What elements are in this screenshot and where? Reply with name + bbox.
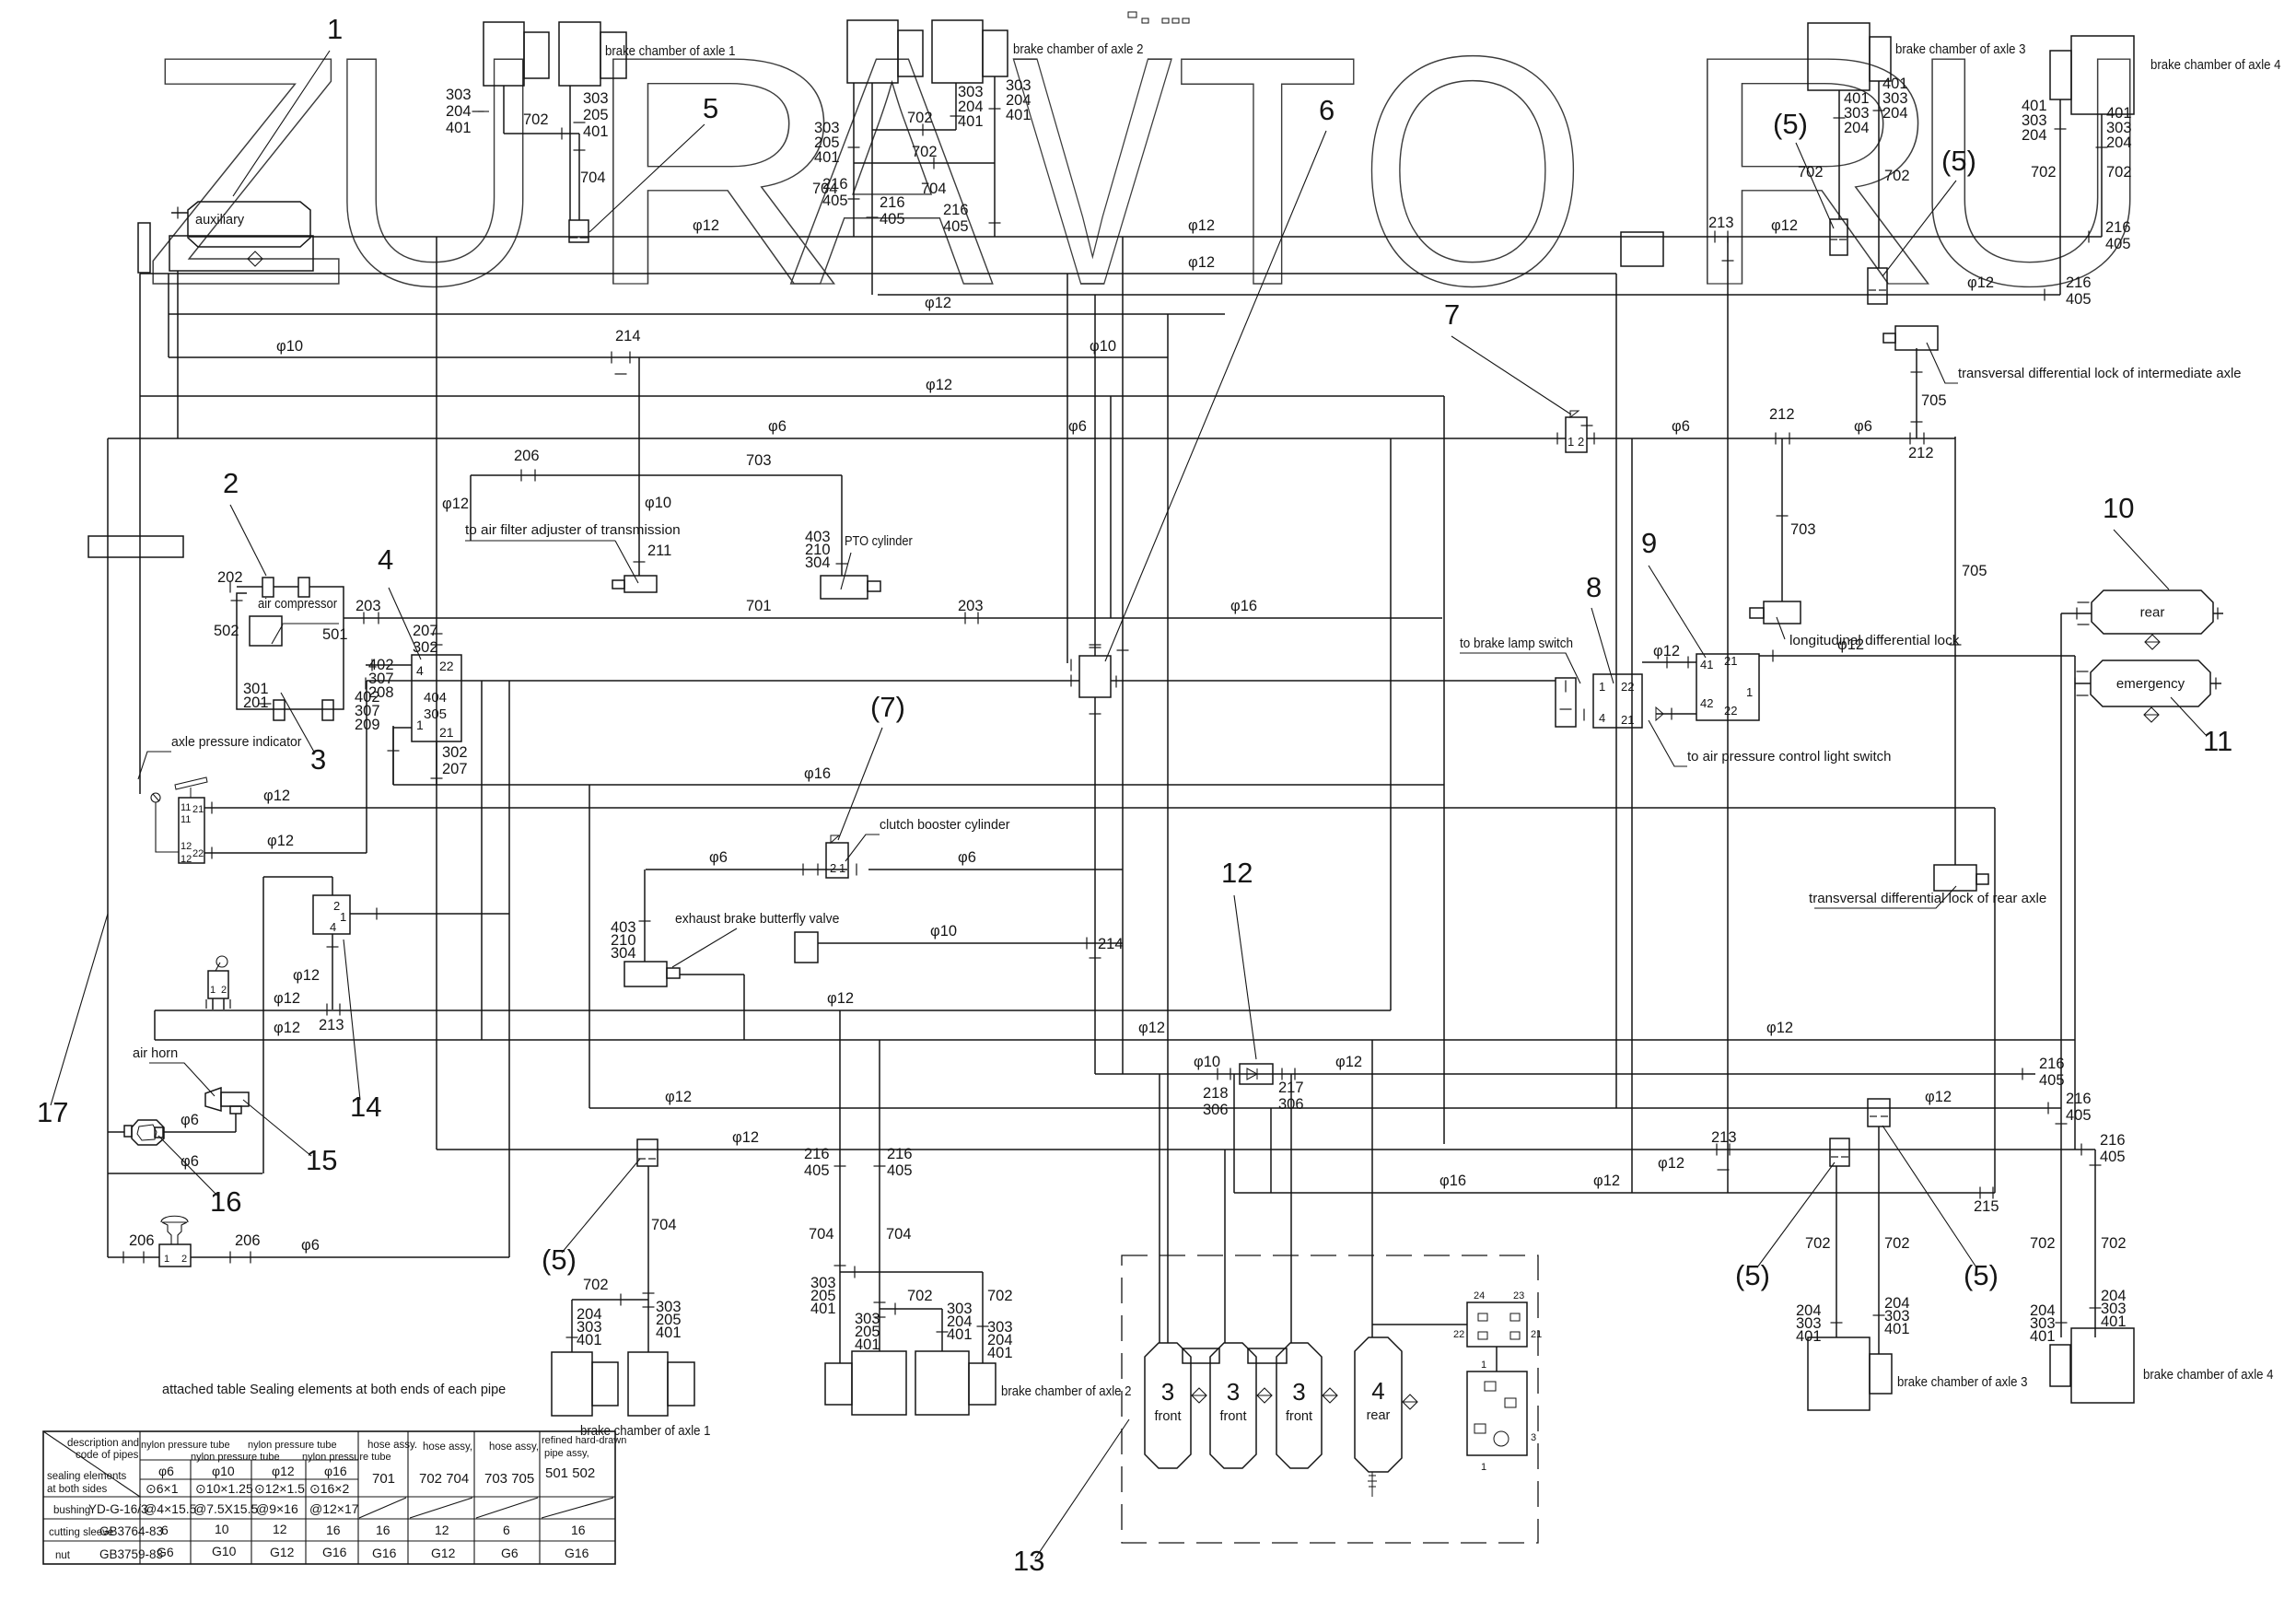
svg-text:4: 4 (416, 663, 424, 678)
svg-text:5: 5 (703, 92, 718, 124)
watermark dot square (1621, 232, 1663, 266)
diamond rear (2145, 635, 2160, 649)
leader 2 (230, 505, 266, 576)
diamond tD (1403, 1395, 1417, 1409)
valve 8 box (1593, 674, 1642, 728)
svg-text:1: 1 (1568, 435, 1574, 449)
svg-text:206: 206 (514, 448, 540, 464)
axle2 small box A (898, 30, 923, 76)
svg-text:refined hard-drawn: refined hard-drawn (542, 1435, 626, 1446)
svg-text:(5): (5) (1964, 1259, 1999, 1291)
svg-text:φ12: φ12 (293, 967, 320, 984)
svg-text:703: 703 (1790, 521, 1816, 538)
svg-text:201: 201 (243, 694, 269, 711)
svg-text:φ12: φ12 (1335, 1054, 1362, 1070)
svg-text:214: 214 (1098, 936, 1124, 952)
brake chamber axle4 bottom big (2071, 1328, 2134, 1403)
leader (7) (838, 728, 882, 840)
left cap rect (138, 223, 150, 273)
wire 702 link axle1 bottom (572, 1299, 648, 1301)
wire phi12 8 to 9 (1642, 661, 1696, 663)
table diagonals hose (359, 1498, 406, 1518)
svg-text:GB3764-83: GB3764-83 (99, 1524, 163, 1538)
tank risers (1159, 1074, 1160, 1343)
svg-text:11: 11 (181, 814, 191, 825)
svg-text:front: front (1219, 1409, 1246, 1424)
svg-text:to brake lamp switch: to brake lamp switch (1460, 636, 1573, 651)
wire 702 link axle1 (504, 133, 579, 134)
wire clutch phi6 y944 (646, 869, 847, 870)
svg-text:216: 216 (943, 202, 969, 218)
leader (5) bottom (562, 1159, 640, 1253)
wire vert x1568 (1443, 396, 1445, 1144)
svg-text:401: 401 (1006, 107, 1031, 123)
svg-text:405: 405 (943, 218, 969, 235)
svg-text:front: front (1154, 1409, 1181, 1424)
svg-text:11: 11 (181, 802, 191, 813)
leader 9 (1649, 566, 1706, 658)
svg-text:21: 21 (439, 725, 454, 740)
leader pto (841, 553, 851, 589)
axle4 bottom small (2050, 1345, 2070, 1386)
compressor ports (262, 578, 274, 597)
svg-text:@7.5X15.5: @7.5X15.5 (193, 1501, 258, 1516)
fitting box axle1 (569, 220, 589, 242)
wire bus y1248 (437, 1149, 2095, 1150)
wire bus y1129 (155, 1039, 2075, 1041)
svg-text:2: 2 (830, 861, 836, 875)
svg-text:405: 405 (804, 1162, 830, 1179)
svg-text:G6: G6 (501, 1546, 519, 1560)
svg-text:203: 203 (355, 598, 381, 614)
svg-text:702: 702 (2031, 164, 2057, 181)
brake chamber of axle 1 top boxA (484, 22, 524, 86)
svg-text:304: 304 (805, 554, 831, 571)
svg-text:702: 702 (1805, 1235, 1831, 1252)
svg-text:13: 13 (1013, 1545, 1044, 1577)
svg-text:φ12: φ12 (925, 295, 951, 311)
svg-text:transversal differential lock: transversal differential lock of interme… (1958, 367, 2242, 381)
wire vert x1876 (1727, 237, 1729, 1193)
svg-text:704: 704 (812, 181, 838, 197)
svg-text:1: 1 (164, 1254, 169, 1265)
leader 6 (1105, 131, 1326, 661)
svg-text:704: 704 (886, 1226, 912, 1243)
svg-text:212: 212 (1769, 406, 1795, 423)
svg-text:22: 22 (192, 848, 204, 859)
wire toggle stubs (212, 998, 214, 1010)
svg-text:21: 21 (1621, 713, 1634, 727)
svg-text:12: 12 (1221, 857, 1253, 889)
svg-text:φ12: φ12 (1138, 1020, 1165, 1036)
brake chamber axle3 bottom big (1808, 1337, 1870, 1410)
wire 703 line y516 (471, 474, 842, 476)
svg-text:702: 702 (907, 1288, 933, 1304)
svg-text:212: 212 (1908, 445, 1934, 461)
svg-text:G12: G12 (431, 1546, 456, 1560)
svg-text:nylon pressure tube: nylon pressure tube (191, 1452, 280, 1463)
wire clutch booster phi10 y1024 (818, 942, 1123, 944)
diamond emergency (2144, 707, 2159, 722)
api body (179, 798, 204, 863)
wire axle4 risers (2059, 99, 2061, 295)
svg-text:14: 14 (350, 1091, 381, 1123)
svg-text:702: 702 (583, 1277, 609, 1293)
svg-text:brake chamber of axle 2: brake chamber of axle 2 (1013, 42, 1144, 57)
wire 702 riser axle1 (571, 1300, 573, 1352)
svg-text:φ12: φ12 (274, 990, 300, 1007)
svg-text:6: 6 (503, 1523, 510, 1537)
leader 5 (589, 124, 705, 232)
svg-text:704: 704 (580, 169, 606, 186)
leader tdlr (1814, 886, 1956, 908)
wire axle1 legA (503, 86, 505, 134)
leader 7 (1451, 336, 1571, 414)
wire vert x427 (392, 726, 394, 785)
svg-text:401: 401 (1796, 1328, 1822, 1345)
svg-text:bushing: bushing (53, 1505, 90, 1516)
wire hand valve line y1365 (108, 1256, 159, 1258)
svg-text:16: 16 (376, 1523, 390, 1537)
svg-text:24: 24 (1474, 1290, 1485, 1301)
svg-text:302: 302 (413, 639, 438, 656)
wire exhaust stub y1058 (680, 974, 744, 975)
svg-text:401: 401 (2030, 1328, 2056, 1345)
svg-text:1: 1 (1746, 685, 1753, 699)
svg-text:exhaust brake butterfly valve: exhaust brake butterfly valve (675, 912, 839, 927)
wire bus y1097 (155, 1010, 1391, 1011)
svg-text:φ12: φ12 (1188, 217, 1215, 234)
svg-text:longitudinal differential lock: longitudinal differential lock (1789, 634, 1960, 648)
wire 701 line y671 (344, 617, 1442, 619)
brake chamber axle2 bottom bigB (915, 1351, 969, 1415)
svg-text:φ12: φ12 (732, 1129, 759, 1146)
svg-text:6: 6 (161, 1523, 169, 1537)
svg-text:702: 702 (1884, 168, 1910, 184)
svg-text:405: 405 (2066, 291, 2092, 308)
svg-text:405: 405 (2100, 1149, 2126, 1165)
svg-text:1: 1 (327, 13, 343, 45)
wire riser x1067 702 (982, 1272, 984, 1363)
svg-text:206: 206 (235, 1232, 261, 1249)
svg-text:9: 9 (1641, 527, 1657, 559)
wire rear ports (2061, 613, 2092, 614)
wire vert x1755 (1615, 274, 1617, 1108)
wire bus1 y257 (189, 236, 2102, 238)
wire port4 (366, 664, 412, 666)
table frame (43, 1431, 615, 1564)
svg-text:φ12: φ12 (693, 217, 719, 234)
table diagonal header (43, 1431, 140, 1497)
leader 14 (344, 940, 360, 1100)
leader air filter underline (465, 540, 615, 542)
svg-text:12: 12 (435, 1523, 449, 1537)
svg-text:⊙10×1.25: ⊙10×1.25 (195, 1481, 253, 1496)
svg-text:φ12: φ12 (827, 990, 854, 1007)
leader (5) b (1882, 181, 1956, 276)
svg-text:φ10: φ10 (930, 923, 957, 940)
tank 3 front A (1145, 1343, 1191, 1468)
svg-text:401: 401 (814, 149, 840, 166)
wire bus7 y476 phi6 (108, 438, 1566, 439)
wire 702 link axle2 bottom (880, 1308, 942, 1310)
wire axle3 riserA (1838, 90, 1840, 219)
svg-text:401: 401 (583, 123, 609, 140)
svg-text:G12: G12 (270, 1545, 295, 1559)
wire vert x1189 lower (1094, 697, 1096, 1074)
svg-text:hose assy,: hose assy, (489, 1441, 539, 1453)
wire vert x117 (107, 438, 109, 1257)
valve 9 box (1696, 654, 1759, 720)
svg-text:16: 16 (210, 1185, 241, 1218)
cluster link wires (1496, 1347, 1498, 1371)
svg-text:nut: nut (55, 1550, 71, 1561)
wire bus3 y320 (878, 294, 2060, 296)
svg-text:at both sides: at both sides (47, 1484, 107, 1495)
svg-text:φ16: φ16 (804, 765, 831, 782)
svg-text:brake chamber of axle 1: brake chamber of axle 1 (605, 44, 736, 59)
svg-text:⊙12×1.5: ⊙12×1.5 (254, 1481, 305, 1496)
svg-text:701: 701 (746, 598, 772, 614)
svg-text:42: 42 (1700, 696, 1713, 710)
svg-text:φ10: φ10 (276, 338, 303, 355)
svg-text:auxiliary: auxiliary (195, 213, 245, 228)
svg-text:401: 401 (947, 1326, 973, 1343)
wire valve14 top (332, 877, 333, 895)
svg-text:φ12: φ12 (267, 833, 294, 849)
svg-text:404: 404 (424, 690, 447, 706)
svg-text:701: 701 (372, 1471, 395, 1487)
svg-text:6: 6 (1319, 94, 1334, 126)
svg-text:GB3759-83: GB3759-83 (99, 1547, 163, 1561)
wire vert x193 (177, 271, 179, 438)
axle1 small box A (524, 32, 549, 78)
leader api (138, 752, 171, 779)
wire vert x640 (589, 785, 590, 1108)
svg-text:10: 10 (215, 1522, 229, 1536)
leader exhaust (672, 928, 737, 967)
svg-text:φ16: φ16 (1439, 1173, 1466, 1189)
wire vert x2166 (1994, 808, 1996, 1193)
svg-text:204: 204 (2106, 134, 2132, 151)
wire vert x1772 (1631, 438, 1633, 1193)
svg-text:φ16: φ16 (324, 1464, 347, 1478)
svg-text:YD-G-16/3: YD-G-16/3 (88, 1502, 148, 1516)
diamond aux drain (248, 251, 262, 266)
svg-text:401: 401 (656, 1325, 682, 1341)
watermark ZURAVTO RU outline letters (143, 0, 2157, 354)
svg-text:216: 216 (887, 1146, 913, 1162)
leader 11 (2171, 697, 2206, 735)
air horn port (230, 1106, 241, 1114)
leader 1 (233, 51, 330, 196)
svg-text:501: 501 (322, 626, 348, 643)
wire valve14 right (350, 913, 509, 915)
dashed storage box (1122, 1255, 1538, 1543)
PTO cylinder body (821, 576, 868, 599)
wire vert x2238 rear feed and axle4 riser (2060, 613, 2062, 1337)
leader clutch booster (845, 835, 880, 861)
svg-text:4: 4 (1371, 1377, 1384, 1405)
svg-text:G6: G6 (157, 1545, 174, 1559)
wire bus2 y297 (140, 273, 1616, 274)
svg-text:401: 401 (1884, 1321, 1910, 1337)
svg-text:φ12: φ12 (1766, 1020, 1793, 1036)
wire vert x2253 emergency feed (2074, 656, 2076, 1150)
brake valve 6 box (1079, 656, 1111, 697)
svg-text:22: 22 (1621, 680, 1634, 694)
svg-text:G16: G16 (372, 1546, 397, 1560)
svg-text:φ12: φ12 (1771, 217, 1798, 234)
auxiliary tank (188, 202, 310, 247)
svg-text:φ6: φ6 (709, 849, 728, 866)
wire bus y1166 (1095, 1073, 2035, 1075)
tank 3 front C (1276, 1343, 1322, 1468)
svg-text:air horn: air horn (133, 1046, 178, 1061)
svg-text:702: 702 (2106, 164, 2132, 181)
wire bus5 y388 phi10 (169, 356, 1168, 358)
svg-text:7: 7 (1444, 298, 1460, 331)
svg-text:218: 218 (1203, 1085, 1229, 1102)
svg-text:4: 4 (330, 920, 336, 934)
svg-text:1: 1 (1481, 1360, 1486, 1371)
wire port1 (393, 728, 412, 785)
svg-text:φ6: φ6 (181, 1112, 199, 1128)
svg-text:PTO cylinder: PTO cylinder (845, 534, 913, 549)
svg-text:703 705: 703 705 (484, 1471, 534, 1487)
leader 4 (389, 588, 421, 659)
svg-text:φ6: φ6 (158, 1464, 174, 1478)
svg-text:rear: rear (1367, 1408, 1391, 1423)
axle2 bottom smallA (825, 1363, 852, 1405)
wire vert x2275 axle4 riser2 (2094, 1150, 2096, 1337)
svg-text:3: 3 (1161, 1378, 1174, 1406)
wire vert x808 (743, 975, 745, 1040)
svg-text:502: 502 (214, 623, 239, 639)
wire vert x474 (436, 237, 437, 1150)
wire vert x1935 703 drop (1781, 438, 1783, 601)
axle1 small box B (600, 32, 626, 78)
svg-text:2: 2 (223, 467, 239, 499)
axle3 bottom small (1870, 1354, 1892, 1394)
svg-text:φ6: φ6 (301, 1237, 320, 1254)
fitting box right B (1830, 1138, 1849, 1166)
hand brake valve (159, 1244, 191, 1266)
svg-text:206: 206 (129, 1232, 155, 1249)
svg-text:attached table Sealing elem: attached table Sealing elements at both … (162, 1383, 506, 1397)
svg-text:O: O (1358, 0, 1587, 353)
svg-text:brake chamber of axle 3: brake chamber of axle 3 (1897, 1375, 2028, 1390)
svg-text:207: 207 (442, 761, 468, 777)
svg-text:transversal differential lock: transversal differential lock of rear ax… (1809, 892, 2046, 906)
svg-text:11: 11 (2203, 725, 2232, 757)
svg-text:702: 702 (2101, 1235, 2127, 1252)
svg-text:23: 23 (1513, 1290, 1524, 1301)
clutch booster cylinder body (795, 932, 818, 963)
svg-text:405: 405 (2105, 236, 2131, 252)
valve 8 attach box (1556, 678, 1576, 727)
svg-text:213: 213 (1708, 215, 1734, 231)
svg-text:702: 702 (907, 110, 933, 126)
svg-text:3: 3 (1531, 1432, 1536, 1443)
svg-text:φ16: φ16 (1230, 598, 1257, 614)
svg-text:21: 21 (1531, 1329, 1542, 1340)
svg-text:φ10: φ10 (212, 1464, 235, 1478)
brake chamber axle1 bottom bigB (628, 1352, 668, 1416)
wire vert x523 (481, 681, 483, 1040)
svg-text:405: 405 (887, 1162, 913, 1179)
svg-text:description and: description and (67, 1438, 139, 1449)
svg-text:216: 216 (2100, 1132, 2126, 1149)
rear tank (2092, 590, 2213, 634)
svg-text:22: 22 (1453, 1329, 1464, 1340)
wire valve14 port4 drop (332, 934, 333, 1010)
svg-text:@12×17: @12×17 (309, 1501, 359, 1516)
svg-text:205: 205 (583, 107, 609, 123)
wire line y739 (367, 680, 1079, 682)
wire riser x1023 (941, 1309, 943, 1351)
svg-text:4: 4 (1599, 711, 1605, 725)
svg-text:(5): (5) (542, 1243, 577, 1276)
fitting box axle3 B (1868, 268, 1887, 304)
svg-text:emergency: emergency (2116, 676, 2185, 692)
svg-text:1: 1 (210, 985, 216, 996)
leader (5) right2 (1882, 1126, 1976, 1267)
wire bus4 y341 (169, 313, 1225, 315)
hand valve handle (162, 1222, 187, 1244)
svg-text:303: 303 (446, 87, 472, 103)
leader 16 (158, 1136, 217, 1196)
svg-text:214: 214 (615, 328, 641, 344)
api circle (151, 793, 160, 802)
svg-text:1: 1 (1599, 680, 1605, 694)
svg-text:(7): (7) (870, 691, 905, 723)
svg-text:213: 213 (319, 1017, 344, 1033)
brake chamber of axle 1 top boxB (559, 22, 600, 86)
wire vert x168 (154, 1010, 156, 1040)
svg-text:A: A (790, 0, 995, 353)
svg-text:sealing elements: sealing elements (47, 1471, 127, 1482)
wire vert x2081 705 intermediate (1916, 348, 1917, 438)
svg-text:to air filter adjuster of tran: to air filter adjuster of transmission (465, 523, 681, 538)
toggle switch (208, 971, 228, 998)
svg-text:2: 2 (221, 985, 227, 996)
check valve body (1240, 1064, 1273, 1084)
leader (5) right1 (1757, 1162, 1835, 1267)
svg-text:207: 207 (413, 623, 438, 639)
svg-text:304: 304 (611, 945, 636, 962)
svg-text:21: 21 (1724, 654, 1737, 668)
svg-text:405: 405 (2066, 1107, 2092, 1124)
wire vert x914 pto drop (841, 475, 843, 576)
svg-text:φ6: φ6 (1854, 418, 1872, 435)
svg-text:U: U (323, 0, 547, 354)
leader 8 (1591, 608, 1614, 683)
svg-text:φ10: φ10 (645, 495, 671, 511)
wire axle2 702 link upper (871, 83, 873, 130)
leader tdli (1927, 343, 1958, 383)
svg-text:air compressor: air compressor (258, 597, 337, 612)
wire axle2 risers (853, 163, 855, 237)
tank bridges (1183, 1348, 1219, 1363)
emergency tank (2091, 660, 2210, 706)
svg-text:216: 216 (2105, 219, 2131, 236)
valve cluster upper box (1467, 1302, 1527, 1347)
svg-text:306: 306 (1203, 1102, 1229, 1118)
table partial lines (140, 1459, 358, 1461)
wire link y1381 (840, 1271, 983, 1273)
svg-text:3: 3 (1227, 1378, 1240, 1406)
